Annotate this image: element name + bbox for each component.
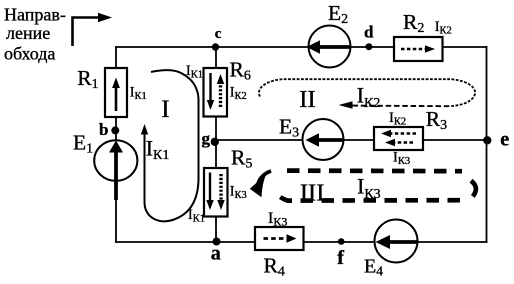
label E2	[328, 1, 348, 27]
direction-of-traversal arrow	[73, 13, 113, 46]
label R1	[77, 66, 98, 92]
node c	[212, 26, 222, 51]
current label IK1 at R5	[188, 207, 205, 225]
wire: right branch d-e-f	[486, 47, 488, 242]
current label IK2 at R2	[435, 19, 452, 37]
wire: top row c-d	[116, 46, 487, 48]
resistor R1	[105, 68, 127, 117]
resistor R6	[204, 68, 228, 117]
mesh I loop arrow	[141, 70, 199, 221]
label R6	[230, 57, 251, 83]
node f	[337, 238, 344, 269]
svg-text:b: b	[99, 120, 108, 139]
label: direction of traversal text	[4, 5, 66, 64]
label E4	[364, 256, 383, 279]
svg-text:III: III	[300, 179, 324, 206]
mesh current label IK2	[357, 83, 381, 112]
label E1	[73, 130, 93, 156]
current label IK1 at R1	[130, 85, 147, 103]
label E3	[279, 115, 299, 141]
node d	[364, 22, 374, 50]
current label IK3 at R3	[393, 149, 410, 167]
mesh label III	[300, 179, 324, 206]
mesh III loop arrow (thick dashed ellipse)	[250, 171, 476, 201]
svg-text:a: a	[211, 243, 221, 265]
current label IK3 at R5	[230, 184, 247, 202]
wire: bottom row a-f	[116, 241, 487, 243]
svg-text:ление: ление	[6, 23, 50, 43]
resistor R3	[374, 127, 423, 150]
node e	[483, 129, 509, 151]
mesh II loop arrow (dotted ellipse)	[259, 79, 475, 109]
svg-text:I: I	[161, 96, 169, 123]
source E2	[307, 26, 351, 68]
resistor R2	[394, 37, 443, 61]
mesh label II	[299, 86, 315, 113]
wire: center branch c-g-a	[215, 47, 217, 242]
svg-text:обхода: обхода	[4, 44, 55, 64]
wire: left branch through R1 and E1	[115, 47, 117, 242]
svg-text:e: e	[500, 129, 509, 151]
svg-text:Направ-: Направ-	[4, 5, 66, 25]
svg-text:d: d	[364, 22, 374, 41]
label R2	[403, 10, 424, 36]
source E3	[303, 119, 344, 160]
current label IK2 at R3	[389, 110, 406, 128]
svg-text:f: f	[337, 247, 344, 269]
node b	[99, 120, 119, 139]
current label IK3 at R4	[268, 210, 287, 229]
node g	[202, 129, 220, 148]
label R5	[231, 146, 252, 172]
label R4	[264, 254, 285, 280]
resistor R5	[204, 168, 228, 217]
mesh label I	[161, 96, 169, 123]
resistor R4	[255, 227, 304, 250]
mesh current label IK3	[357, 174, 381, 203]
node a	[211, 238, 221, 265]
svg-text:c: c	[215, 26, 222, 42]
source E1	[94, 140, 137, 200]
svg-text:II: II	[299, 86, 315, 113]
current label IK2 at R6	[230, 85, 247, 103]
mesh current label IK1	[146, 136, 170, 164]
label R3	[426, 107, 447, 133]
wire: middle row g-e	[216, 139, 487, 141]
svg-text:g: g	[202, 129, 211, 148]
source E4	[375, 220, 418, 263]
current label IK1 at R6	[186, 63, 203, 81]
